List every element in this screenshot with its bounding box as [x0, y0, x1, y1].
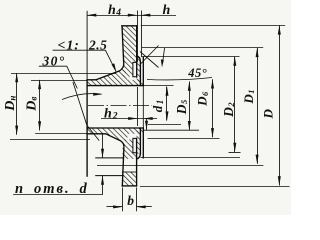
svg-text:45°: 45° [187, 66, 207, 80]
svg-text:Dн: Dн [3, 96, 18, 112]
svg-text:D: D [261, 109, 276, 120]
svg-text:Dв: Dв [24, 97, 39, 112]
svg-text:n: n [15, 181, 23, 197]
svg-text:d1: d1 [150, 100, 165, 113]
svg-text:D6: D6 [195, 91, 210, 107]
svg-text:отв.: отв. [34, 181, 71, 197]
svg-text:h4: h4 [108, 3, 121, 18]
svg-text:d: d [80, 181, 88, 197]
svg-text:2.5: 2.5 [88, 37, 107, 52]
svg-text:D5: D5 [174, 99, 189, 115]
svg-text:30°: 30° [42, 54, 66, 69]
svg-text:D1: D1 [241, 89, 256, 104]
svg-text:h2: h2 [104, 107, 118, 122]
svg-text:h: h [163, 3, 171, 18]
svg-text:<1:: <1: [58, 38, 80, 53]
svg-text:b: b [127, 193, 134, 208]
svg-text:D2: D2 [221, 102, 236, 118]
